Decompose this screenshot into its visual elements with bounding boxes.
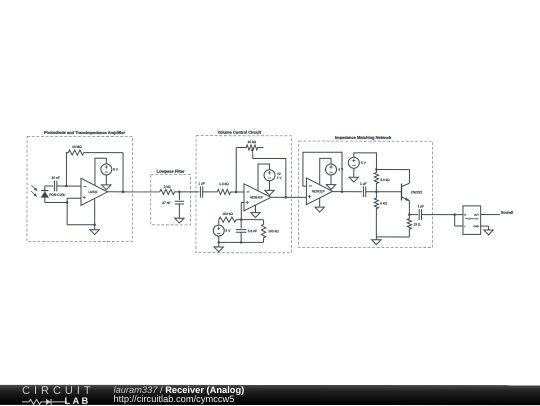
label 5 V block3 bbox=[361, 161, 367, 165]
ground under V4 bbox=[326, 185, 335, 190]
photodiode D1 PDB-C156 bbox=[41, 186, 48, 203]
label 13 Ohm bbox=[413, 222, 421, 226]
svg-text:5.6 nF: 5.6 nF bbox=[248, 229, 257, 233]
label 2N2222 bbox=[411, 190, 423, 194]
resistor R5 100 kOhm horizontal bbox=[219, 217, 242, 222]
label 1 uF block2 bbox=[198, 182, 205, 186]
wire bottom rail block2 bbox=[219, 241, 264, 243]
label 2 kOhm bbox=[164, 185, 171, 189]
ground under V5 bbox=[349, 177, 358, 182]
wire feedback left block2 bbox=[235, 147, 237, 191]
headphone jack X1 bbox=[463, 206, 481, 235]
logo resistor-diode glyph bbox=[21, 397, 67, 405]
label 5.6 nF bbox=[248, 229, 257, 233]
wire V4 to ground bbox=[330, 175, 332, 185]
wire V+ supply loop block1 bbox=[95, 158, 106, 185]
wire C6 to jack bbox=[421, 214, 454, 216]
junction bias node bbox=[240, 218, 243, 221]
junction feedback-output bbox=[122, 191, 125, 194]
wire U2 output to block3 bbox=[271, 196, 306, 198]
voltage source V1 9 V bbox=[101, 164, 112, 175]
resistor R8 6 kOhm bbox=[374, 192, 378, 237]
block title: Photodiode and Transimpedance Amplifier bbox=[44, 130, 126, 135]
svg-text:47 nF: 47 nF bbox=[162, 201, 170, 205]
label 9 V block3 bbox=[338, 168, 344, 172]
voltage source V5 5 V bbox=[348, 157, 359, 168]
capacitor C6 1 uF bbox=[419, 209, 421, 220]
wire ground stub block2 bbox=[218, 242, 220, 247]
ground under V2 bbox=[265, 190, 274, 195]
label 3.3 kOhm bbox=[380, 178, 390, 182]
svg-text:NE5532P: NE5532P bbox=[250, 195, 263, 199]
wire jack OUT bbox=[481, 214, 500, 216]
block box: Volume Control Circuit bbox=[196, 136, 292, 253]
svg-text:6 kΩ: 6 kΩ bbox=[380, 201, 387, 205]
wire R5 to V3 bbox=[218, 220, 220, 226]
svg-text:Photodiode and Transimpedance: Photodiode and Transimpedance Amplifier bbox=[44, 130, 126, 135]
ground block3 bbox=[372, 240, 381, 245]
svg-text:Impedance Matching Network: Impedance Matching Network bbox=[335, 135, 392, 140]
resistor R7 3.3 kOhm bbox=[374, 170, 378, 192]
svg-text:5 V: 5 V bbox=[226, 229, 232, 233]
wire V5 to rail bbox=[354, 153, 377, 170]
junction wiper-output bbox=[285, 196, 288, 199]
op-amp U3 NE5532P bbox=[306, 178, 332, 205]
label 6 kOhm bbox=[380, 201, 387, 205]
voltage source V3 5 V bbox=[213, 225, 224, 236]
junction node inverting input bbox=[65, 185, 68, 188]
junction inverting node op2 bbox=[235, 191, 238, 194]
svg-text:GND: GND bbox=[474, 225, 480, 228]
label 16 MOhm bbox=[72, 145, 82, 149]
wire op-amp V- pin to rail bbox=[94, 199, 96, 230]
capacitor C3 1 uF bbox=[200, 186, 202, 197]
junction emitter node bbox=[408, 213, 411, 216]
resistor R6 100 kOhm vertical bbox=[261, 220, 265, 243]
label 1 uF block3 bbox=[360, 182, 367, 186]
wire op2 V- pin bbox=[254, 205, 256, 213]
ground op2 V- bbox=[251, 213, 260, 218]
svg-text:100 kΩ: 100 kΩ bbox=[268, 229, 279, 233]
wire U1 output to lowpass filter bbox=[108, 191, 160, 193]
op-amp U1 LM741 bbox=[81, 178, 108, 205]
ground op3 V- bbox=[315, 207, 324, 212]
wire emitter down bbox=[408, 200, 410, 214]
svg-text:Lowpass Filter: Lowpass Filter bbox=[157, 169, 185, 174]
block title: Impedance Matching Network bbox=[335, 135, 392, 140]
svg-text:PDB-C156: PDB-C156 bbox=[49, 193, 65, 197]
wire V+ supply loop block3 bbox=[320, 158, 331, 185]
wire op3 V- pin bbox=[319, 198, 321, 207]
wire lowpass node right bbox=[179, 191, 199, 193]
resistor R3 1.3 kOhm bbox=[203, 189, 244, 194]
ground block2 bbox=[214, 247, 223, 252]
svg-text:5 V: 5 V bbox=[361, 161, 367, 165]
capacitor C4 5.6 nF bbox=[236, 230, 247, 233]
svg-text:1 µF: 1 µF bbox=[360, 182, 367, 186]
svg-text:20 nF: 20 nF bbox=[52, 176, 60, 180]
voltage source V2 1 V bbox=[264, 170, 275, 181]
svg-text:3.3 kΩ: 3.3 kΩ bbox=[380, 178, 390, 182]
wire op3 feedback loop bbox=[303, 152, 342, 191]
svg-text:1.3 kΩ: 1.3 kΩ bbox=[219, 182, 229, 186]
label 1 V bbox=[277, 176, 283, 180]
CircuitLab logo bbox=[21, 385, 96, 405]
junction photodiode anode bbox=[66, 201, 69, 204]
photodiode light arrows bbox=[31, 185, 38, 197]
transistor Q1 2N2222 bbox=[401, 183, 409, 201]
resistor R2 2 kOhm bbox=[160, 189, 180, 194]
wire V2 to ground bbox=[269, 181, 271, 191]
label 9 V bbox=[113, 168, 119, 172]
wire V3 to rail bbox=[218, 236, 220, 242]
junction jack input bbox=[453, 213, 456, 216]
svg-text:1 µF: 1 µF bbox=[198, 182, 205, 186]
svg-text:Sound!: Sound! bbox=[501, 211, 513, 215]
ground jack bbox=[484, 230, 493, 235]
capacitor C5 1 uF bbox=[363, 186, 365, 197]
wire V+ supply loop block2 bbox=[258, 164, 270, 191]
wire bias node to R6 bbox=[241, 219, 263, 221]
svg-text:13 Ω: 13 Ω bbox=[413, 222, 421, 226]
capacitor C2 47 nF bbox=[175, 201, 184, 204]
label 1 uF output bbox=[418, 204, 425, 208]
label 1.3 kOhm bbox=[219, 182, 229, 186]
wire photodiode anode to node bbox=[45, 202, 67, 204]
svg-text:9 V: 9 V bbox=[113, 168, 119, 172]
junction divider-base bbox=[375, 190, 378, 193]
svg-text:headphone jack: headphone jack bbox=[465, 218, 478, 220]
wire collector rail bbox=[376, 170, 409, 184]
svg-text:NE5532P: NE5532P bbox=[312, 189, 325, 193]
ground block1 rail bbox=[90, 230, 99, 235]
wire lowpass node to C2 bbox=[178, 192, 180, 200]
label 10 kOhm bbox=[247, 140, 256, 144]
potentiometer wiper arrow bbox=[251, 148, 254, 154]
junction lowpass node bbox=[178, 191, 181, 194]
wire bottom rail block3 bbox=[376, 237, 409, 240]
op-amp U2 NE5532P bbox=[244, 184, 271, 211]
svg-text:1 µF: 1 µF bbox=[418, 204, 425, 208]
footer text bbox=[113, 385, 244, 404]
junction collector rail bbox=[375, 168, 378, 171]
wire jack input pins bbox=[455, 215, 463, 226]
wire V1 to ground bbox=[105, 175, 107, 185]
wire photodiode to C1 bbox=[45, 185, 54, 187]
svg-text:16 MΩ: 16 MΩ bbox=[72, 145, 82, 149]
wire non-inverting input bbox=[67, 198, 95, 225]
ground lowpass bbox=[175, 218, 184, 223]
wire C5 to divider bbox=[366, 191, 402, 193]
wire C2 to ground bbox=[178, 204, 180, 218]
wire feedback left bbox=[65, 153, 67, 186]
svg-text:LM741: LM741 bbox=[88, 190, 98, 194]
wire C1 to op-amp inverting input bbox=[57, 185, 81, 187]
wire bias node to C4 bbox=[240, 220, 242, 229]
block title: Volume Control Circuit bbox=[218, 130, 262, 135]
capacitor C1 20 nF bbox=[55, 181, 57, 192]
ground under V1 bbox=[102, 185, 111, 190]
label 5 V block2 bbox=[226, 229, 232, 233]
svg-text:1 V: 1 V bbox=[277, 176, 283, 180]
wire emitter node to C6 bbox=[409, 214, 418, 216]
block title: Lowpass Filter bbox=[157, 169, 185, 174]
block box: Lowpass Filter bbox=[151, 175, 191, 225]
svg-text:9 V: 9 V bbox=[338, 168, 344, 172]
block box: Photodiode and Transimpedance Amplifier bbox=[27, 136, 132, 241]
wire V5 to ground bbox=[353, 168, 355, 177]
wire U3 output bbox=[333, 191, 363, 193]
label 47 nF bbox=[162, 201, 170, 205]
wire jack GND bbox=[481, 226, 489, 230]
net label Sound! bbox=[501, 211, 513, 215]
label PDB-C156 bbox=[49, 193, 65, 197]
svg-text:2 kΩ: 2 kΩ bbox=[164, 185, 171, 189]
wire op2 non-inverting input bbox=[241, 202, 244, 219]
label 100 kOhm horizontal bbox=[222, 212, 233, 216]
label 20 nF bbox=[52, 176, 60, 180]
label V2 bbox=[277, 172, 281, 176]
svg-text:100 kΩ: 100 kΩ bbox=[222, 212, 233, 216]
label 100 kOhm vertical bbox=[268, 229, 279, 233]
wire wiper to output bbox=[253, 153, 286, 197]
svg-text:2N2222: 2N2222 bbox=[411, 190, 423, 194]
junction C4 rail bbox=[240, 241, 243, 244]
junction V3 rail bbox=[217, 241, 220, 244]
junction op3 feedback-output bbox=[341, 190, 344, 193]
svg-text:10 kΩ: 10 kΩ bbox=[247, 140, 256, 144]
block box: Impedance Matching Network bbox=[299, 141, 433, 247]
resistor R1 16 M&#937; bbox=[66, 150, 123, 155]
wire C4 to rail bbox=[240, 232, 242, 242]
potentiometer R4 10 kOhm bbox=[236, 145, 263, 150]
svg-text:OUT: OUT bbox=[474, 214, 480, 217]
resistor R9 13 Ohm bbox=[407, 215, 411, 237]
voltage source V4 9 V bbox=[326, 164, 337, 175]
svg-text:Volume Control Circuit: Volume Control Circuit bbox=[218, 130, 262, 135]
wire feedback right bbox=[122, 153, 124, 192]
junction ground rail block1 bbox=[93, 224, 96, 227]
